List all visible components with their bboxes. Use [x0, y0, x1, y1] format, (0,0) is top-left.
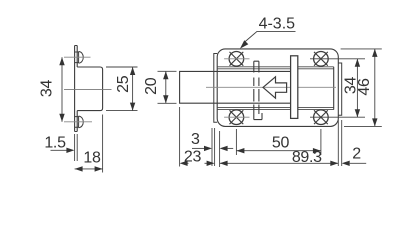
screw hole top-right: [314, 52, 329, 67]
svg-text:25: 25: [115, 75, 132, 93]
extension lines bottom (hole centers): [236, 129, 321, 155]
svg-text:4-3.5: 4-3.5: [259, 16, 296, 33]
dimension 2 (right lip): [342, 146, 367, 167]
svg-text:20: 20: [143, 77, 160, 95]
left side lip: [214, 54, 217, 123]
housing top fold (double line): [217, 67, 334, 69]
housing bottom fold (double line): [217, 108, 334, 110]
housing inner right edge: [333, 67, 335, 110]
extension lines right (hole centerlines): [310, 49, 382, 127]
screw hole bottom-left: [224, 110, 249, 125]
dimension 3 (left lip offset): [191, 131, 233, 151]
svg-text:50: 50: [272, 134, 290, 151]
dimension 34 (hole spacing vertical): [343, 59, 361, 117]
bracket web (channel): [77, 67, 102, 111]
dimension 1.5 (flange thickness leader): [44, 135, 74, 154]
slide knob arrow (points left): [263, 77, 287, 98]
dimension 50 (hole spacing): [236, 134, 321, 153]
slide guide bar: [291, 56, 298, 119]
flange thickness extension lines: [75, 134, 78, 161]
svg-text:46: 46: [356, 78, 373, 96]
screw hole bottom-right: [314, 110, 329, 125]
dimension 89.3 (overall width): [220, 149, 339, 166]
svg-text:18: 18: [83, 150, 101, 167]
bolt (slides out to the left): [180, 71, 291, 103]
countersunk hole, top tab: [75, 52, 84, 64]
web horizontal centerline: [64, 88, 112, 90]
base plate outline: [217, 49, 338, 127]
right side lip: [338, 63, 341, 115]
svg-text:34: 34: [38, 80, 55, 98]
countersunk hole, bottom tab: [75, 116, 84, 128]
extension lines bottom-right (plate edge and lip): [338, 120, 341, 166]
dimension 23 (bolt throw): [180, 149, 215, 166]
centerline through top hole: [64, 56, 91, 58]
web depth extension line (right): [102, 115, 104, 173]
dimension 20 (bolt width): [143, 71, 177, 103]
dimension 18 (web depth): [75, 150, 103, 172]
svg-text:1.5: 1.5: [44, 135, 66, 152]
dimension 25 (left view, web height): [106, 67, 138, 111]
dimension 46 (overall height): [356, 49, 377, 127]
latch centerline: [206, 86, 336, 88]
extension lines bottom-left (lip and plate edge): [212, 128, 220, 167]
leader 4-3.5 (hole callout): [240, 16, 296, 49]
svg-text:3: 3: [191, 131, 200, 148]
screw hole top-left: [224, 52, 249, 67]
keeper staple (segmented vertical bar): [254, 61, 262, 119]
bracket flange (vertical strip with two mounting tabs): [75, 46, 78, 132]
extension line bolt end: [179, 107, 181, 167]
centerline through bottom hole: [64, 121, 92, 123]
dimension 34 (left view, hole spacing): [38, 57, 64, 122]
svg-text:2: 2: [352, 146, 361, 163]
